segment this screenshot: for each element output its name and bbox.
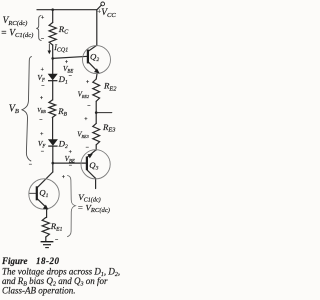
svg-text:= VC1(dc): = VC1(dc): [1, 28, 34, 39]
svg-text:Q1: Q1: [39, 188, 48, 200]
svg-text:−: −: [55, 238, 58, 244]
svg-text:VCC: VCC: [101, 8, 116, 19]
svg-text:Class-AB operation.: Class-AB operation.: [2, 285, 76, 295]
svg-text:D2: D2: [58, 138, 68, 150]
svg-text:18-20: 18-20: [36, 256, 60, 266]
svg-text:−: −: [41, 149, 44, 155]
svg-text:+: +: [86, 79, 89, 85]
svg-text:ICQ1: ICQ1: [53, 43, 68, 54]
svg-text:RE3: RE3: [102, 122, 115, 134]
svg-text:Q2: Q2: [90, 52, 99, 64]
svg-text:+: +: [69, 150, 72, 156]
svg-text:D1: D1: [58, 74, 68, 86]
svg-text:+: +: [84, 117, 87, 123]
svg-text:VF: VF: [37, 73, 46, 84]
svg-text:−: −: [87, 103, 90, 109]
svg-text:+: +: [40, 131, 43, 137]
svg-text:−: −: [39, 117, 42, 123]
svg-text:−: −: [29, 162, 32, 168]
svg-text:+: +: [41, 15, 44, 21]
svg-text:RB: RB: [57, 106, 67, 118]
svg-text:−: −: [41, 37, 44, 43]
svg-text:+: +: [40, 95, 43, 101]
svg-text:−: −: [69, 74, 72, 80]
svg-text:−: −: [41, 84, 44, 90]
svg-text:= VRC(dc): = VRC(dc): [77, 203, 110, 215]
svg-text:VRB: VRB: [37, 108, 46, 114]
svg-text:VB: VB: [9, 103, 19, 115]
svg-text:VRE2: VRE2: [78, 91, 90, 99]
svg-text:Figure: Figure: [1, 256, 28, 266]
svg-text:RC: RC: [58, 24, 69, 36]
svg-text:VRC(dc): VRC(dc): [3, 16, 28, 27]
svg-text:−: −: [69, 163, 72, 169]
svg-text:+: +: [65, 59, 68, 65]
svg-text:VRE3: VRE3: [77, 131, 89, 139]
svg-text:Q3: Q3: [89, 160, 98, 172]
svg-text:+: +: [41, 67, 44, 73]
svg-text:−: −: [86, 145, 89, 151]
svg-text:RE2: RE2: [103, 81, 117, 93]
svg-text:RE1: RE1: [50, 221, 63, 233]
svg-text:+: +: [62, 175, 65, 181]
